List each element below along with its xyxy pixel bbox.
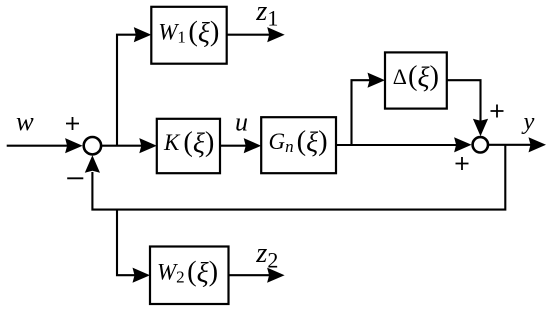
svg-text:z1: z1 (255, 0, 278, 30)
svg-text:y: y (521, 108, 535, 135)
block Delta (385, 52, 447, 108)
wire: feedback from output junction down, left, up to sum1 (92, 145, 505, 210)
summing junction S1 (84, 137, 101, 154)
wire: branch down to W2 (117, 210, 138, 276)
arrowhead into sum1 (65, 138, 83, 153)
wire: branch up to Delta (352, 80, 375, 145)
svg-text:w: w (16, 106, 34, 136)
plus sign at sum2 bottom-left (456, 157, 469, 170)
arrowhead z1 end (267, 27, 285, 42)
block K (157, 119, 220, 173)
svg-text:u: u (235, 107, 248, 136)
summing junction S2 (473, 137, 488, 152)
svg-text:K(ξ): K(ξ) (163, 127, 214, 159)
svg-text:Δ(ξ): Δ(ξ) (393, 61, 439, 93)
arrowhead into W2 (133, 268, 151, 283)
svg-text:W1(ξ): W1(ξ) (158, 17, 219, 49)
minus sign at sum1 bottom-left (67, 177, 83, 179)
wire: K to Gn (220, 145, 250, 147)
arrowhead into sum2 left (454, 137, 472, 152)
arrowhead into sum2 top (down) (473, 119, 488, 137)
arrowhead into sum1 bottom (up) (85, 155, 100, 173)
wire: Gn to sum2 (337, 144, 461, 146)
svg-text:W2(ξ): W2(ξ) (157, 257, 218, 289)
block Gn (261, 117, 336, 173)
arrowhead into Gn (244, 138, 262, 153)
arrowhead into K (139, 138, 157, 153)
arrowhead z2 end (267, 268, 285, 283)
wire: Delta output down to sum2 top (447, 80, 481, 124)
svg-text:Gn(ξ): Gn(ξ) (269, 126, 328, 158)
wire: W1 output to z1 (227, 34, 272, 36)
block W1 (151, 7, 226, 64)
plus sign at sum2 top-right (491, 105, 504, 118)
wire: sum1 to K(xi) (102, 145, 147, 147)
arrowhead into Delta (368, 73, 386, 88)
arrowhead into W1 (134, 27, 152, 42)
wire: branch up to W1 (117, 35, 140, 146)
plus sign at sum1 top-left (66, 117, 79, 130)
wire: W2 output to z2 (229, 274, 273, 276)
wire: w input to sum1 (7, 145, 70, 147)
block W2 (150, 247, 229, 305)
arrowhead y end (529, 137, 547, 152)
wire: sum2 output to y (489, 144, 534, 146)
